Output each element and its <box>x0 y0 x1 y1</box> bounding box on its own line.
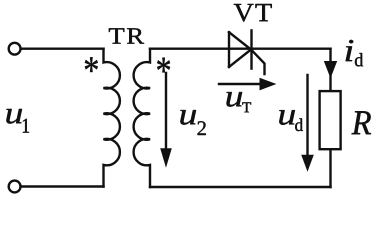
label ud <box>279 110 303 131</box>
arrow u2 line <box>165 73 167 150</box>
polarity asterisk secondary <box>157 58 170 73</box>
transformer TR primary winding <box>104 49 120 187</box>
arrowhead uT <box>260 78 277 91</box>
wire bottom (right loop) <box>150 186 331 188</box>
arrow uT line <box>219 83 263 85</box>
arrow ud line <box>306 75 308 156</box>
wire right vertical (to resistor) <box>329 49 331 91</box>
thyristor VT gate lead <box>252 50 265 74</box>
thyristor VT triangle <box>229 32 251 67</box>
wire top (secondary to right corner) <box>150 48 331 50</box>
transformer TR secondary winding <box>134 49 150 187</box>
wire resistor bottom stub <box>329 149 331 187</box>
label u1 <box>6 109 29 133</box>
arrowhead u2 <box>160 148 172 167</box>
label TR <box>109 28 144 43</box>
label R <box>352 111 372 134</box>
wire bottom-left <box>22 185 104 187</box>
thyristor VT anode bar <box>228 32 230 67</box>
label VT <box>234 4 272 22</box>
polarity asterisk primary <box>85 57 98 72</box>
arrowhead id (current direction) <box>324 61 337 78</box>
label id <box>346 40 363 66</box>
label u2 <box>180 110 205 135</box>
thyristor VT cathode bar <box>250 30 252 68</box>
wire top-left <box>22 48 104 50</box>
terminal top-left <box>9 43 21 55</box>
resistor R body <box>320 91 341 149</box>
terminal bottom-left <box>9 181 21 193</box>
label uT <box>226 92 251 112</box>
arrowhead ud <box>301 155 314 172</box>
